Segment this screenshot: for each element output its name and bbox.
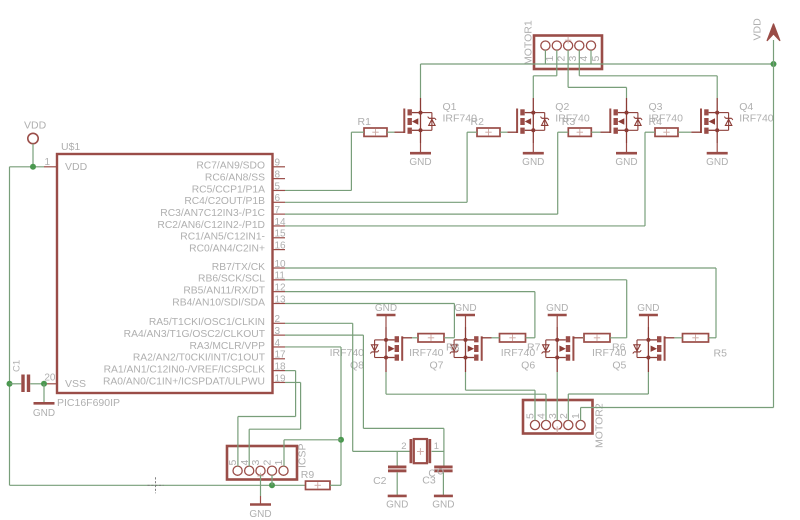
svg-text:11: 11 (275, 271, 286, 282)
svg-text:VDD: VDD (24, 120, 47, 132)
svg-text:C1: C1 (12, 360, 23, 372)
svg-text:9: 9 (275, 158, 281, 169)
svg-text:RC5/CCP1/P1A: RC5/CCP1/P1A (192, 184, 265, 195)
svg-text:GND: GND (546, 303, 568, 314)
svg-text:VDD: VDD (752, 18, 764, 41)
svg-text:R3: R3 (562, 116, 576, 128)
svg-text:ICSP: ICSP (297, 443, 309, 468)
svg-text:RC6/AN8/SS: RC6/AN8/SS (205, 172, 265, 183)
svg-text:GND: GND (33, 408, 55, 419)
svg-text:GND: GND (409, 157, 431, 168)
svg-text:RB4/AN10/SDI/SDA: RB4/AN10/SDI/SDA (172, 297, 265, 308)
svg-text:1: 1 (273, 460, 285, 466)
svg-text:Q2: Q2 (555, 101, 569, 113)
svg-text:GND: GND (454, 303, 476, 314)
svg-text:PIC16F690IP: PIC16F690IP (57, 397, 120, 409)
svg-text:VDD: VDD (65, 161, 88, 173)
svg-text:VSS: VSS (65, 378, 86, 390)
svg-text:Q7: Q7 (429, 360, 443, 372)
svg-text:19: 19 (275, 373, 287, 384)
svg-text:RB7/TX/CK: RB7/TX/CK (212, 262, 265, 273)
svg-text:R1: R1 (358, 116, 372, 128)
svg-text:8: 8 (275, 169, 281, 180)
svg-text:GND: GND (432, 500, 454, 511)
svg-text:R9: R9 (301, 469, 315, 481)
svg-text:12: 12 (275, 282, 287, 293)
svg-text:GND: GND (637, 303, 659, 314)
svg-text:1: 1 (44, 157, 50, 168)
svg-text:Q5: Q5 (612, 360, 626, 372)
svg-text:18: 18 (275, 361, 287, 372)
svg-text:R8: R8 (446, 342, 460, 354)
svg-text:GND: GND (615, 157, 637, 168)
svg-text:RA5/T1CKI/OSC1/CLKIN: RA5/T1CKI/OSC1/CLKIN (149, 317, 265, 328)
svg-text:IRF740: IRF740 (409, 347, 444, 359)
svg-text:6: 6 (275, 193, 281, 204)
svg-text:2: 2 (275, 314, 281, 325)
svg-text:IRF740: IRF740 (330, 347, 365, 359)
svg-text:Q4: Q4 (739, 101, 753, 113)
svg-text:16: 16 (275, 240, 287, 251)
svg-text:Q3: Q3 (649, 101, 663, 113)
svg-text:RA0/AN0/C1IN+/ICSPDAT/ULPWU: RA0/AN0/C1IN+/ICSPDAT/ULPWU (103, 376, 265, 387)
svg-text:1: 1 (434, 441, 439, 452)
svg-text:14: 14 (275, 217, 287, 228)
svg-text:RC2/AN6/C12IN2-/P1D: RC2/AN6/C12IN2-/P1D (157, 220, 265, 231)
svg-text:5: 5 (275, 181, 281, 192)
svg-text:MOTOR1: MOTOR1 (523, 20, 535, 65)
svg-text:3: 3 (275, 326, 281, 337)
svg-text:RA4/AN3/T1G/OSC2/CLKOUT: RA4/AN3/T1G/OSC2/CLKOUT (124, 329, 266, 340)
svg-text:R7: R7 (527, 342, 541, 354)
svg-text:GND: GND (375, 303, 397, 314)
svg-text:RC0/AN4/C2IN+: RC0/AN4/C2IN+ (189, 243, 265, 254)
svg-text:RC3/AN7C12IN3-/P1C: RC3/AN7C12IN3-/P1C (160, 208, 265, 219)
svg-text:RB6/SCK/SCL: RB6/SCK/SCL (198, 274, 265, 285)
svg-text:7: 7 (275, 205, 281, 216)
svg-text:R5: R5 (714, 348, 728, 360)
svg-text:C2: C2 (373, 475, 387, 487)
svg-text:RC7/AN9/SDO: RC7/AN9/SDO (196, 161, 265, 172)
svg-text:GND: GND (706, 157, 728, 168)
svg-text:RC1/AN5/C12IN1-: RC1/AN5/C12IN1- (180, 232, 265, 243)
svg-text:Q6: Q6 (521, 360, 535, 372)
svg-text:MOTOR2: MOTOR2 (594, 403, 606, 448)
svg-text:RC4/C2OUT/P1B: RC4/C2OUT/P1B (184, 196, 265, 207)
svg-text:3: 3 (250, 460, 262, 466)
svg-text:R4: R4 (649, 116, 663, 128)
svg-text:R2: R2 (471, 116, 485, 128)
svg-text:RA3/MCLR/VPP: RA3/MCLR/VPP (189, 341, 265, 352)
svg-text:C: C (428, 469, 435, 480)
svg-text:15: 15 (275, 229, 287, 240)
svg-text:Q1: Q1 (443, 101, 457, 113)
svg-text:IRF740: IRF740 (739, 113, 774, 125)
svg-text:GND: GND (522, 157, 544, 168)
svg-text:GND: GND (386, 500, 408, 511)
svg-text:4: 4 (275, 338, 281, 349)
svg-text:17: 17 (275, 350, 287, 361)
svg-text:RB5/AN11/RX/DT: RB5/AN11/RX/DT (183, 285, 265, 296)
svg-text:RA2/AN2/T0CKI/INT/C1OUT: RA2/AN2/T0CKI/INT/C1OUT (133, 353, 266, 364)
svg-text:R6: R6 (612, 342, 626, 354)
svg-text:U$1: U$1 (61, 141, 80, 153)
svg-text:2: 2 (262, 460, 274, 466)
svg-text:GND: GND (249, 509, 271, 520)
svg-text:13: 13 (275, 294, 287, 305)
svg-text:10: 10 (275, 259, 287, 270)
svg-text:2: 2 (401, 441, 406, 452)
svg-text:3: 3 (567, 56, 579, 62)
svg-text:RA1/AN1/C12IN0-/VREF/ICSPCLK: RA1/AN1/C12IN0-/VREF/ICSPCLK (104, 364, 266, 375)
